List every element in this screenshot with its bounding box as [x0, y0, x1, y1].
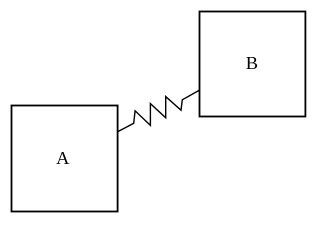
svg-text:B: B: [246, 53, 258, 73]
block B: [200, 12, 306, 117]
svg-text:A: A: [56, 148, 70, 168]
block A: [12, 106, 118, 212]
spring (zigzag) between A and B: [118, 90, 200, 132]
